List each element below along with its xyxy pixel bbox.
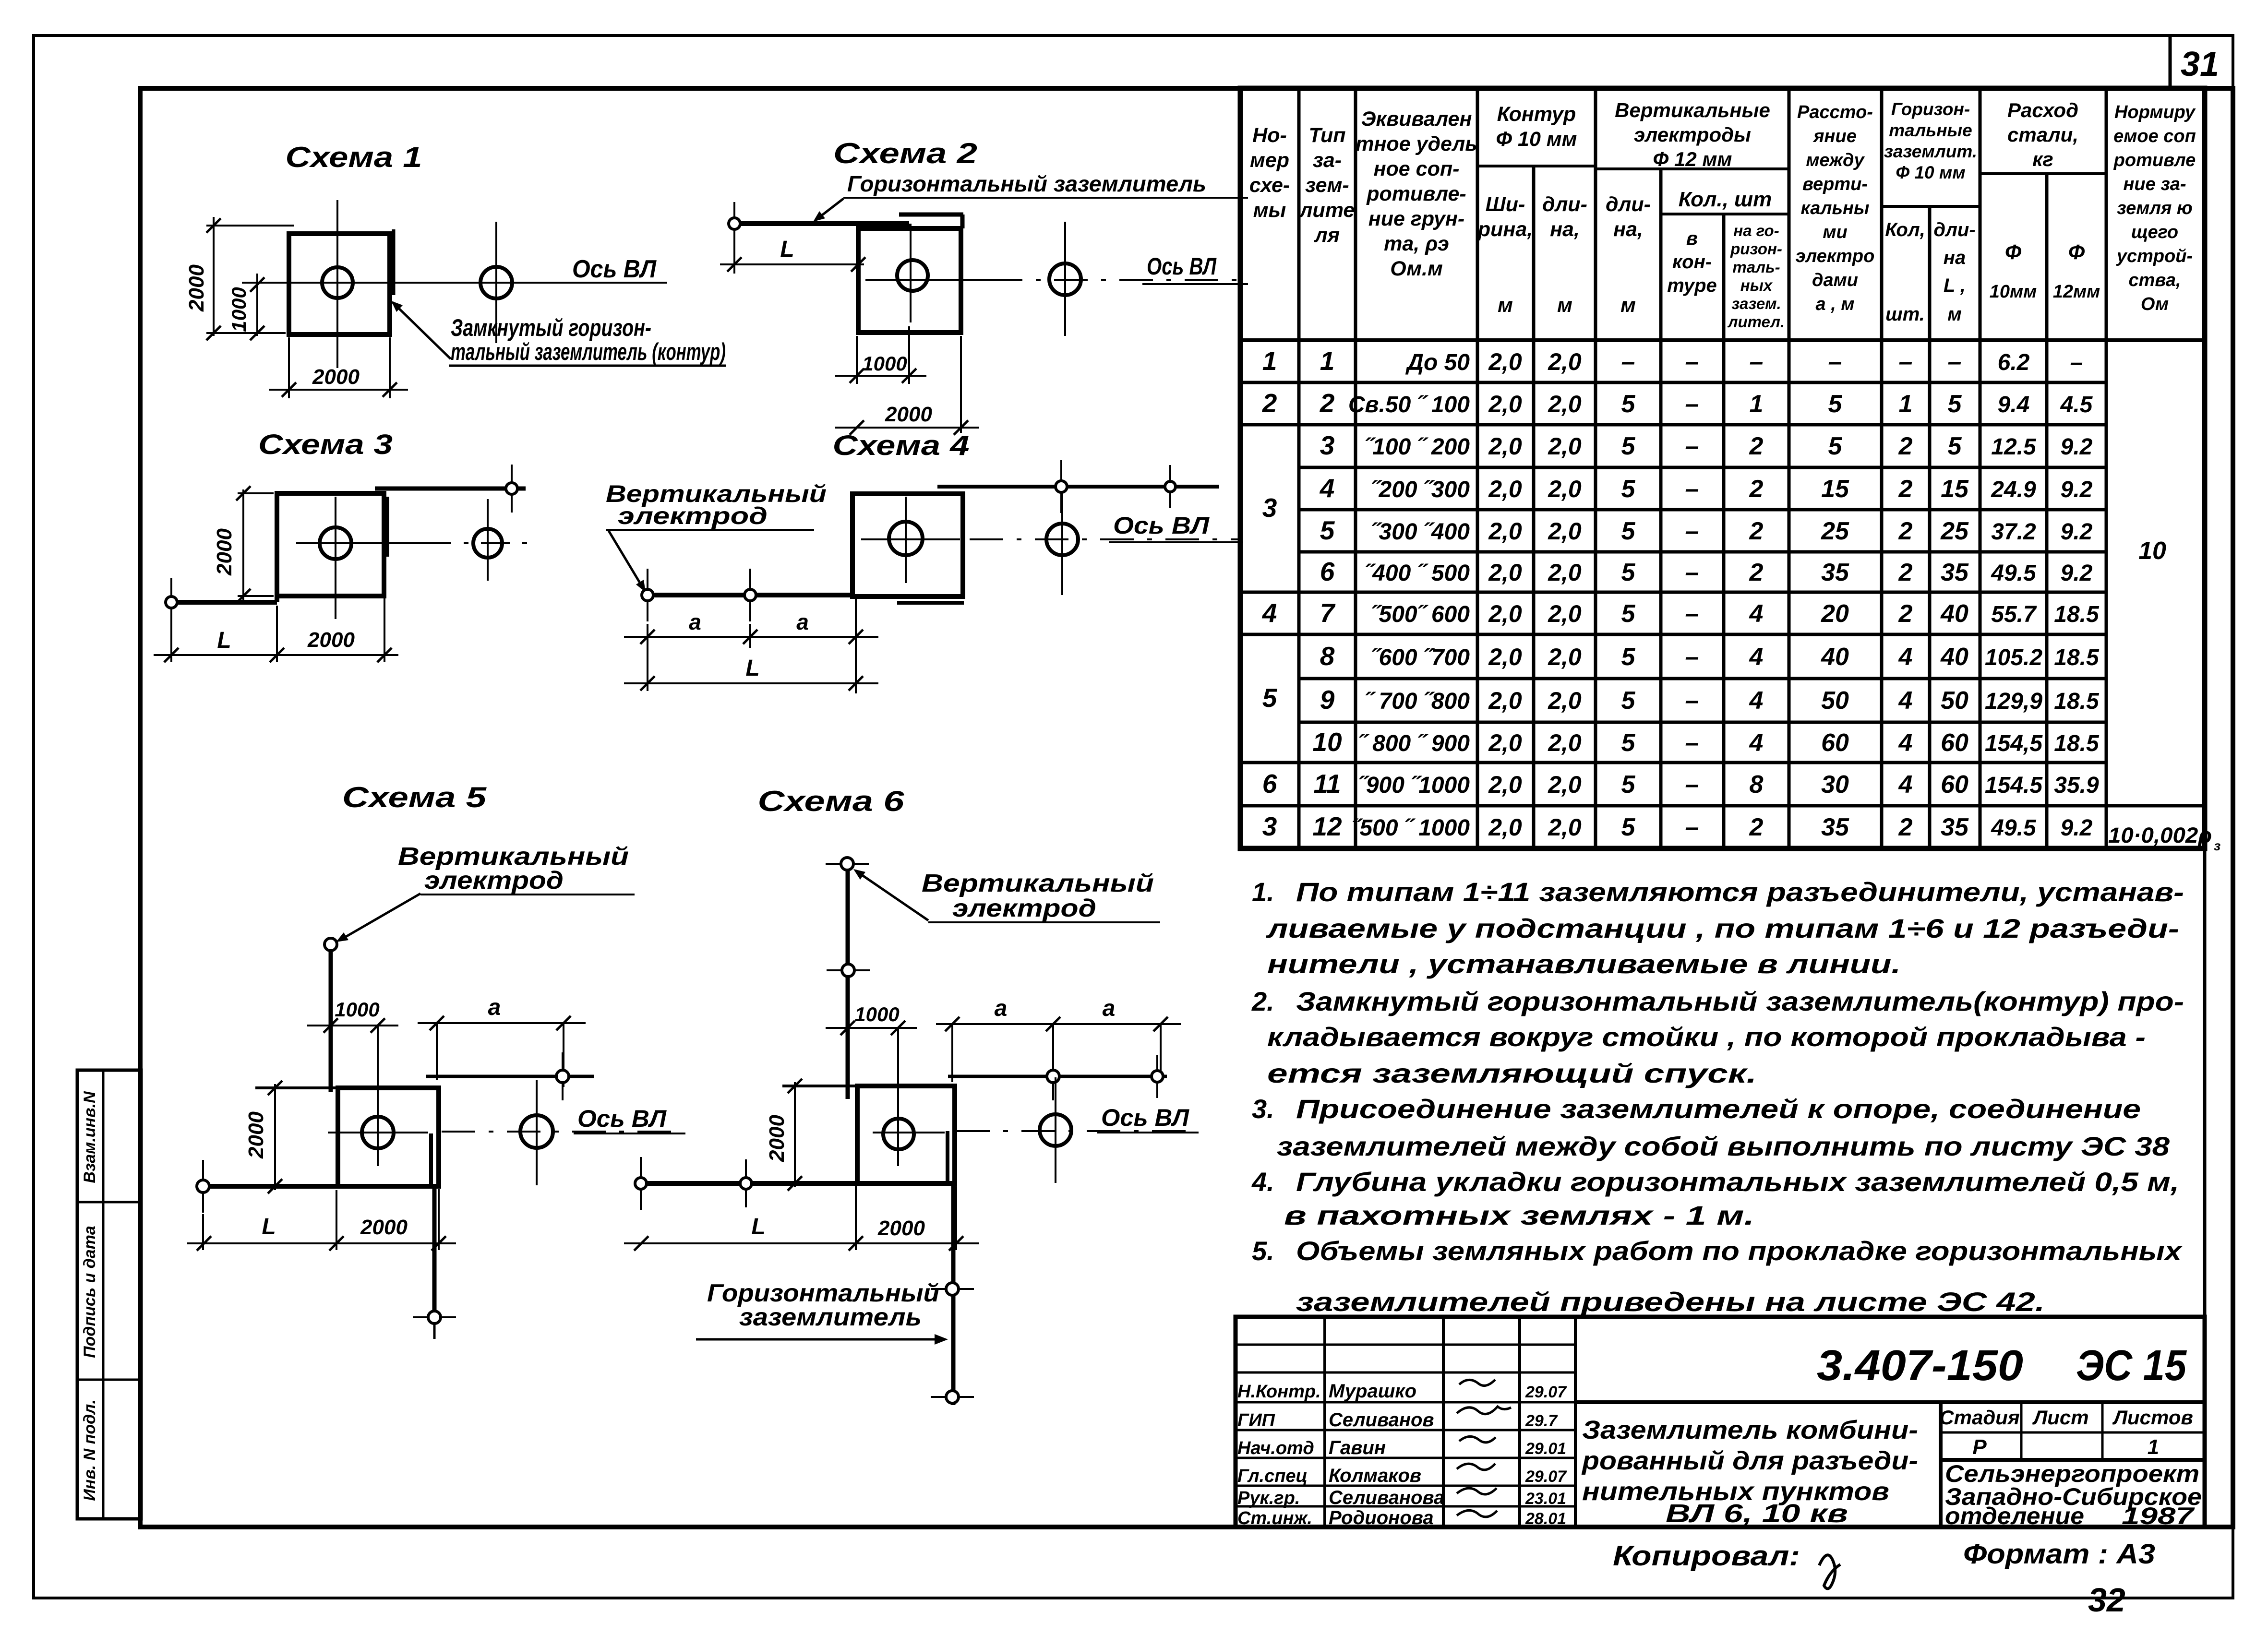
svg-text:–: – — [1685, 687, 1699, 715]
svg-text:˝500˝ 600: ˝500˝ 600 — [1371, 602, 1470, 627]
svg-text:˝ 800 ˝ 900: ˝ 800 ˝ 900 — [1358, 731, 1470, 756]
svg-text:Кол., шт: Кол., шт — [1679, 188, 1772, 211]
svg-text:–: – — [1685, 432, 1699, 460]
svg-text:2.: 2. — [1251, 986, 1274, 1016]
svg-text:Ось ВЛ: Ось ВЛ — [1113, 512, 1210, 539]
svg-text:2,0: 2,0 — [1488, 518, 1522, 545]
svg-text:Ф 10 мм: Ф 10 мм — [1496, 128, 1577, 151]
table values ширина — [1488, 348, 1522, 841]
svg-text:–: – — [1685, 600, 1699, 628]
svg-text:4: 4 — [1749, 687, 1764, 715]
svg-text:Ось ВЛ: Ось ВЛ — [577, 1105, 667, 1132]
svg-text:5: 5 — [1828, 432, 1843, 460]
header эквивалентное удельное сопротивление грунта — [1356, 107, 1477, 280]
scheme 5 label вертикальный электрод — [398, 843, 635, 895]
svg-text:3.: 3. — [1252, 1094, 1274, 1124]
svg-text:55.7: 55.7 — [1991, 602, 2037, 627]
svg-text:–: – — [1828, 348, 1842, 376]
svg-text:кон-: кон- — [1672, 251, 1712, 273]
table value 10-0,002ρэ — [2108, 823, 2220, 853]
svg-text:2000: 2000 — [885, 403, 932, 426]
svg-text:Заземлитель комбини-: Заземлитель комбини- — [1582, 1416, 1918, 1444]
svg-text:2,0: 2,0 — [1548, 476, 1582, 502]
scheme 4 dim L — [624, 656, 878, 691]
svg-text:3: 3 — [1320, 430, 1335, 460]
header номер схемы — [1249, 124, 1290, 222]
note line — [1252, 877, 2184, 907]
svg-text:˝200 ˝300: ˝200 ˝300 — [1371, 477, 1470, 502]
svg-text:–: – — [1685, 475, 1699, 503]
svg-text:Замкнутый горизонтальный заз: Замкнутый горизонтальный заземлитель(кон… — [1296, 986, 2184, 1016]
svg-text:Ось ВЛ: Ось ВЛ — [572, 255, 657, 283]
scheme 6 electrode row line — [948, 1075, 1167, 1078]
svg-text:дли-: дли- — [1606, 193, 1651, 216]
svg-text:рованный для разъеди-: рованный для разъеди- — [1581, 1446, 1918, 1475]
svg-text:Ось ВЛ: Ось ВЛ — [1147, 253, 1217, 280]
svg-text:2: 2 — [1262, 388, 1277, 418]
svg-text:2,0: 2,0 — [1548, 559, 1582, 586]
svg-text:на,: на, — [1550, 218, 1580, 241]
scheme 6 dims a a — [936, 996, 1181, 1082]
svg-text:Ф 10 мм: Ф 10 мм — [1896, 163, 1965, 182]
header расстояние между электродами — [1796, 102, 1875, 314]
svg-text:м: м — [1947, 304, 1962, 325]
svg-text:2,0: 2,0 — [1488, 600, 1522, 627]
table header separator lines — [1240, 166, 2205, 340]
svg-text:1: 1 — [1262, 346, 1277, 376]
svg-text:35: 35 — [1821, 559, 1849, 586]
note line — [1251, 986, 2184, 1016]
svg-text:2: 2 — [1749, 813, 1764, 841]
svg-text:кальны: кальны — [1801, 198, 1870, 218]
svg-text:Ф: Ф — [2005, 240, 2022, 264]
svg-text:5: 5 — [1621, 600, 1636, 628]
table values Ф10 — [1985, 350, 2043, 841]
svg-text:Подпись и дата: Подпись и дата — [81, 1226, 99, 1358]
svg-text:Вертикальные: Вертикальные — [1615, 99, 1770, 121]
scheme 6 horizontal earthing conductor — [641, 1181, 948, 1186]
svg-text:20: 20 — [1821, 600, 1849, 628]
scheme 1 label Ось ВЛ — [572, 255, 657, 283]
header ширина unit м — [1498, 294, 1513, 317]
scheme 5 row electrode — [556, 1052, 569, 1100]
svg-text:Схема 3: Схема 3 — [258, 429, 393, 460]
scheme 2 dim L — [720, 230, 865, 274]
svg-text:нители , устанавливаемые в л: нители , устанавливаемые в линии. — [1267, 949, 1901, 979]
svg-text:29.07: 29.07 — [1525, 1383, 1567, 1401]
svg-text:Замкнутый горизон-: Замкнутый горизон- — [451, 314, 651, 341]
svg-text:˝500 ˝ 1000: ˝500 ˝ 1000 — [1352, 815, 1470, 841]
svg-text:кладывается вокруг стойки ,: кладывается вокруг стойки , по которой п… — [1267, 1022, 2146, 1052]
scheme 4 contour square — [852, 494, 964, 603]
svg-text:L ,: L , — [1944, 275, 1966, 296]
svg-text:Присоединение заземлителей к: Присоединение заземлителей к опоре, соед… — [1296, 1094, 2141, 1124]
svg-text:в: в — [1686, 228, 1698, 249]
svg-text:–: – — [1685, 771, 1699, 799]
svg-text:Ф 12 мм: Ф 12 мм — [1653, 148, 1732, 170]
scheme 6 title — [758, 785, 905, 817]
svg-text:1.: 1. — [1252, 877, 1274, 907]
svg-text:5: 5 — [1621, 687, 1636, 715]
svg-text:9.4: 9.4 — [1998, 392, 2030, 417]
svg-text:Ось ВЛ: Ось ВЛ — [1101, 1104, 1190, 1131]
svg-text:Селиванова: Селиванова — [1329, 1487, 1444, 1508]
svg-text:9.2: 9.2 — [2061, 561, 2093, 586]
svg-text:4: 4 — [1320, 473, 1335, 503]
svg-text:щего: щего — [2131, 222, 2178, 242]
stamp label Взам. инв. № — [81, 1091, 99, 1183]
svg-text:ЭС 15: ЭС 15 — [2076, 1342, 2187, 1390]
svg-text:4: 4 — [1898, 687, 1913, 715]
svg-text:Глубина укладки горизонтальн: Глубина укладки горизонтальных заземлите… — [1296, 1167, 2179, 1197]
svg-text:Вертикальный: Вертикальный — [922, 870, 1154, 897]
svg-text:Копировал:: Копировал: — [1613, 1540, 1800, 1572]
header длина unit м — [1557, 294, 1572, 317]
svg-text:заземлителей между собой в: заземлителей между собой выполнить по ли… — [1277, 1131, 2170, 1161]
scheme 6 conductor electrode 1 — [635, 1157, 647, 1210]
svg-text:ротивле: ротивле — [2113, 150, 2196, 170]
svg-text:˝300 ˝400: ˝300 ˝400 — [1371, 519, 1470, 545]
table value 10 — [2138, 537, 2166, 565]
title block signature grid — [1236, 1317, 1575, 1527]
scheme 6 adjacent pole circle — [1040, 1077, 1071, 1183]
svg-text:Схема 4: Схема 4 — [833, 430, 970, 461]
svg-text:40: 40 — [1940, 600, 1968, 628]
table values расстояние a — [1821, 348, 1849, 841]
scheme 6 label вертикальный электрод — [922, 870, 1160, 922]
svg-text:18.5: 18.5 — [2054, 731, 2100, 756]
title block doc number 3.407-150 ЭС 15 — [1817, 1342, 2187, 1390]
svg-text:м: м — [1620, 294, 1636, 317]
scheme 4 VL axis line — [861, 538, 1242, 540]
scheme 1 adjacent pole circle — [480, 222, 512, 343]
svg-text:ние грун-: ние грун- — [1368, 207, 1464, 230]
svg-text:Нач.отд: Нач.отд — [1237, 1438, 1314, 1458]
svg-text:Схема 5: Схема 5 — [342, 781, 487, 813]
копировал — [1613, 1540, 1840, 1589]
svg-text:9.2: 9.2 — [2061, 477, 2093, 502]
svg-text:2,0: 2,0 — [1488, 771, 1522, 798]
svg-text:a: a — [689, 609, 701, 634]
note line — [1267, 1022, 2146, 1052]
svg-text:49.5: 49.5 — [1991, 561, 2037, 586]
svg-text:50: 50 — [1941, 687, 1968, 715]
svg-text:4.: 4. — [1251, 1167, 1274, 1197]
scheme 4 label вертикальный электрод — [606, 480, 827, 530]
scheme 6 leader arrow — [853, 869, 928, 920]
organization name — [1945, 1460, 2202, 1529]
svg-text:5: 5 — [1621, 813, 1636, 841]
header длина электрода — [1606, 193, 1651, 241]
svg-text:2: 2 — [1898, 600, 1913, 628]
svg-text:15: 15 — [1941, 475, 1969, 503]
svg-text:1000: 1000 — [228, 287, 250, 332]
svg-text:Мурашко: Мурашко — [1329, 1381, 1416, 1402]
svg-text:заземлителей приведены на ли: заземлителей приведены на листе ЭС 42. — [1296, 1287, 2045, 1317]
svg-text:L: L — [217, 628, 231, 653]
note line — [1277, 1131, 2170, 1161]
scheme 5 vertical electrode top — [324, 938, 337, 951]
svg-text:–: – — [1685, 348, 1699, 376]
right margin column line — [2203, 88, 2207, 1527]
scheme 2 leader arrow — [813, 199, 843, 222]
svg-text:–: – — [1685, 517, 1699, 545]
svg-text:5: 5 — [1621, 771, 1636, 799]
svg-text:12.5: 12.5 — [1991, 434, 2037, 460]
svg-text:8: 8 — [1320, 641, 1335, 671]
svg-text:L: L — [745, 656, 759, 681]
main table outer border — [1240, 88, 2205, 848]
svg-text:9.2: 9.2 — [2061, 519, 2093, 545]
scheme 5 horizontal earthing conductor — [203, 1184, 431, 1189]
svg-text:Св.50 ˝ 100: Св.50 ˝ 100 — [1348, 392, 1470, 417]
svg-text:на го-: на го- — [1733, 222, 1779, 239]
svg-text:18.5: 18.5 — [2054, 602, 2100, 627]
svg-text:10·0,002ρ: 10·0,002ρ — [2108, 823, 2212, 847]
scheme 1 pole centerline — [336, 200, 338, 368]
scheme 3 title — [258, 429, 393, 460]
svg-text:ства,: ства, — [2128, 270, 2181, 290]
svg-text:L: L — [751, 1214, 765, 1240]
svg-text:между: между — [1806, 150, 1865, 170]
table values номер схемы — [1262, 346, 1278, 841]
svg-text:2,0: 2,0 — [1548, 433, 1582, 460]
scheme 6 dim 1000 — [826, 1003, 917, 1035]
scheme 5 dim 2000 vertical — [244, 1081, 282, 1193]
svg-text:2: 2 — [1749, 517, 1764, 545]
svg-text:L: L — [262, 1214, 276, 1240]
svg-text:верти-: верти- — [1802, 174, 1868, 194]
table values Ф12 — [2054, 350, 2100, 841]
stamp label Подпись и дата — [81, 1226, 99, 1358]
svg-text:Эквивален: Эквивален — [1361, 107, 1472, 131]
svg-text:35.9: 35.9 — [2054, 773, 2099, 798]
svg-text:32: 32 — [2088, 1581, 2125, 1619]
scheme 5 conductor end electrode — [197, 1160, 209, 1213]
scheme 5 dim 1000 — [307, 998, 398, 1033]
svg-text:лител.: лител. — [1727, 313, 1785, 331]
svg-text:2000: 2000 — [213, 528, 236, 576]
scheme 2 VL axis line — [865, 279, 1246, 281]
формат А3 — [1963, 1539, 2155, 1570]
scheme 6 row electrode 2 — [1152, 1055, 1163, 1098]
svg-text:5: 5 — [1828, 390, 1843, 418]
svg-text:23.01: 23.01 — [1525, 1490, 1566, 1508]
svg-text:2000: 2000 — [765, 1115, 789, 1162]
svg-text:–: – — [2070, 350, 2083, 375]
scheme 5 VL axis line — [328, 1132, 684, 1133]
scheme 4 title — [833, 430, 970, 461]
scheme 1 title — [286, 141, 422, 173]
svg-text:Горизонтальный заземлитель: Горизонтальный заземлитель — [847, 171, 1206, 196]
svg-text:1: 1 — [1750, 390, 1764, 418]
svg-text:4: 4 — [1749, 600, 1764, 628]
svg-text:a: a — [796, 609, 809, 634]
svg-text:Схема 1: Схема 1 — [286, 141, 422, 173]
svg-text:Схема 2: Схема 2 — [833, 137, 977, 169]
stamp label Инв. № подл. — [81, 1399, 99, 1501]
scheme 4 adjacent earthing line — [937, 485, 1219, 489]
svg-text:Рук.гр.: Рук.гр. — [1237, 1488, 1300, 1508]
svg-text:37.2: 37.2 — [1991, 519, 2036, 545]
svg-text:25: 25 — [1940, 517, 1969, 545]
scheme 1 dim 1000 vertical — [228, 274, 264, 340]
svg-text:заземлит.: заземлит. — [1884, 142, 1977, 161]
scheme 3 pole centerline — [335, 497, 336, 619]
svg-text:154,5: 154,5 — [1985, 731, 2043, 756]
svg-text:тное удель: тное удель — [1356, 132, 1477, 155]
scheme 5 adjacent pole circle — [520, 1080, 553, 1185]
scheme 1 closed contour (замкнутый горизонтальный заземлитель) — [289, 229, 394, 334]
svg-text:зазем.: зазем. — [1731, 295, 1781, 312]
svg-text:1000: 1000 — [862, 352, 907, 375]
svg-text:Ши-: Ши- — [1486, 193, 1525, 216]
signature row Гл.спец Колмаков — [1237, 1464, 1567, 1486]
svg-text:5: 5 — [1621, 517, 1636, 545]
svg-text:29.7: 29.7 — [1525, 1412, 1558, 1430]
svg-text:29.07: 29.07 — [1525, 1467, 1567, 1486]
header Ф10мм — [1990, 240, 2037, 302]
svg-text:Взам.инв.N: Взам.инв.N — [81, 1091, 99, 1183]
svg-text:5: 5 — [1320, 515, 1335, 545]
scheme 2 label горизонтальный заземлитель — [843, 171, 1248, 198]
scheme 3 pole circle — [320, 527, 351, 559]
svg-text:a: a — [488, 995, 501, 1020]
scheme 4 dims a a — [624, 596, 878, 693]
scheme 5 leader arrow — [336, 894, 420, 942]
page number box — [2170, 36, 2219, 88]
svg-text:2,0: 2,0 — [1548, 518, 1582, 545]
svg-text:Тип: Тип — [1308, 124, 1345, 147]
note line — [1296, 1287, 2045, 1317]
svg-text:стали,: стали, — [2007, 123, 2078, 146]
svg-text:5: 5 — [1621, 729, 1636, 757]
svg-text:–: – — [1685, 643, 1699, 671]
header длина L — [1933, 219, 1975, 296]
svg-text:Листов: Листов — [2112, 1406, 2193, 1429]
scheme 2 title — [833, 137, 977, 169]
svg-text:2000: 2000 — [360, 1216, 408, 1239]
svg-text:9.2: 9.2 — [2061, 434, 2093, 460]
scheme 5 vertical electrode line — [329, 950, 333, 1092]
svg-text:24.9: 24.9 — [1991, 477, 2036, 502]
scheme 4 label Ось ВЛ — [1109, 512, 1243, 542]
svg-text:2,0: 2,0 — [1488, 729, 1522, 756]
svg-text:29.01: 29.01 — [1525, 1440, 1566, 1458]
svg-text:Р: Р — [1972, 1435, 1987, 1459]
svg-text:–: – — [1899, 348, 1913, 376]
svg-text:154.5: 154.5 — [1985, 773, 2043, 798]
svg-text:электро: электро — [1796, 246, 1875, 266]
scheme 5 title — [342, 781, 487, 813]
svg-text:электрод: электрод — [618, 502, 768, 529]
svg-text:–: – — [1685, 390, 1699, 418]
header длина электрода unit м — [1620, 294, 1636, 317]
svg-text:2000: 2000 — [312, 365, 360, 389]
table values кол гориз — [1898, 348, 1913, 841]
svg-text:2000: 2000 — [877, 1217, 925, 1240]
svg-text:3: 3 — [1262, 811, 1277, 841]
scheme 6 bottom dims L 2000 — [624, 1186, 979, 1251]
svg-text:тальные: тальные — [1889, 120, 1972, 140]
svg-text:9: 9 — [1320, 685, 1335, 715]
svg-text:отделение: отделение — [1945, 1503, 2084, 1529]
svg-text:2000: 2000 — [244, 1111, 268, 1159]
svg-text:шт.: шт. — [1885, 304, 1925, 325]
header вертикальные электроды — [1615, 99, 1770, 170]
svg-text:12: 12 — [1312, 811, 1342, 841]
svg-text:1: 1 — [1899, 390, 1913, 418]
svg-text:60: 60 — [1941, 771, 1968, 799]
scheme 6 conductor electrode 2 — [740, 1159, 752, 1207]
scheme 6 vertical electrode top — [826, 858, 869, 870]
svg-text:2,0: 2,0 — [1488, 348, 1522, 375]
scheme 5 contour square — [255, 1088, 439, 1186]
svg-text:35: 35 — [1941, 813, 1969, 841]
стадия лист листов grid — [1941, 1402, 2205, 1460]
scheme 1 dim 2000 horizontal — [269, 337, 408, 398]
svg-text:1987: 1987 — [2122, 1503, 2195, 1529]
scheme 4 electrode 1 — [642, 569, 653, 621]
svg-text:–: – — [1621, 348, 1635, 376]
svg-text:4: 4 — [1898, 729, 1913, 757]
scheme 6 label горизонтальный заземлитель — [696, 1279, 948, 1345]
signature row Рук.гр. Селиванова — [1237, 1487, 1566, 1508]
signature row Ст.инж. Родионова — [1237, 1507, 1566, 1528]
svg-text:2,0: 2,0 — [1548, 814, 1582, 841]
scheme 4 pole centerline — [905, 497, 907, 583]
svg-text:2: 2 — [1749, 559, 1764, 586]
svg-text:˝100 ˝ 200: ˝100 ˝ 200 — [1365, 434, 1470, 460]
svg-text:2: 2 — [1898, 813, 1913, 841]
svg-text:дли-: дли- — [1933, 219, 1975, 240]
scheme 1 annotation замкнутый горизонтальный заземлитель — [449, 314, 726, 366]
svg-text:До 50: До 50 — [1405, 350, 1470, 375]
svg-text:Рассто-: Рассто- — [1797, 102, 1873, 122]
svg-text:2,0: 2,0 — [1488, 476, 1522, 502]
svg-text:туре: туре — [1667, 275, 1717, 296]
svg-text:–: – — [1750, 348, 1764, 376]
header длина контура — [1542, 193, 1587, 241]
note line — [1267, 949, 1901, 979]
svg-text:Ст.инж.: Ст.инж. — [1237, 1508, 1312, 1528]
scheme 2 horizontal earthing conductor — [734, 224, 909, 230]
svg-text:25: 25 — [1821, 517, 1849, 545]
svg-text:50: 50 — [1821, 687, 1849, 715]
svg-text:ливаемые у подстанции , по т: ливаемые у подстанции , по типам 1÷6 и 1… — [1265, 913, 2179, 943]
svg-text:4: 4 — [1898, 643, 1913, 671]
svg-text:9.2: 9.2 — [2061, 815, 2093, 841]
svg-text:30: 30 — [1821, 771, 1849, 799]
scheme 3 conductor end electrode — [166, 578, 177, 626]
svg-text:–: – — [1685, 559, 1699, 586]
svg-text:5: 5 — [1948, 432, 1962, 460]
svg-text:дами: дами — [1812, 270, 1858, 290]
table column lines — [1299, 88, 2106, 848]
header контур Ф10мм — [1496, 103, 1577, 151]
svg-text:a: a — [1103, 996, 1116, 1021]
header расход стали — [2007, 99, 2078, 170]
svg-text:5: 5 — [1621, 390, 1636, 418]
svg-text:Родионова: Родионова — [1329, 1507, 1434, 1528]
page number 32 — [2088, 1581, 2125, 1619]
svg-text:˝ 700 ˝800: ˝ 700 ˝800 — [1365, 689, 1470, 714]
svg-text:5: 5 — [1621, 643, 1636, 671]
svg-text:По типам 1÷11 заземляются раз: По типам 1÷11 заземляются разъединители,… — [1296, 877, 2184, 907]
svg-text:–: – — [1685, 813, 1699, 841]
table values удельное сопротивление — [1348, 350, 1470, 841]
svg-text:м: м — [1557, 294, 1572, 317]
